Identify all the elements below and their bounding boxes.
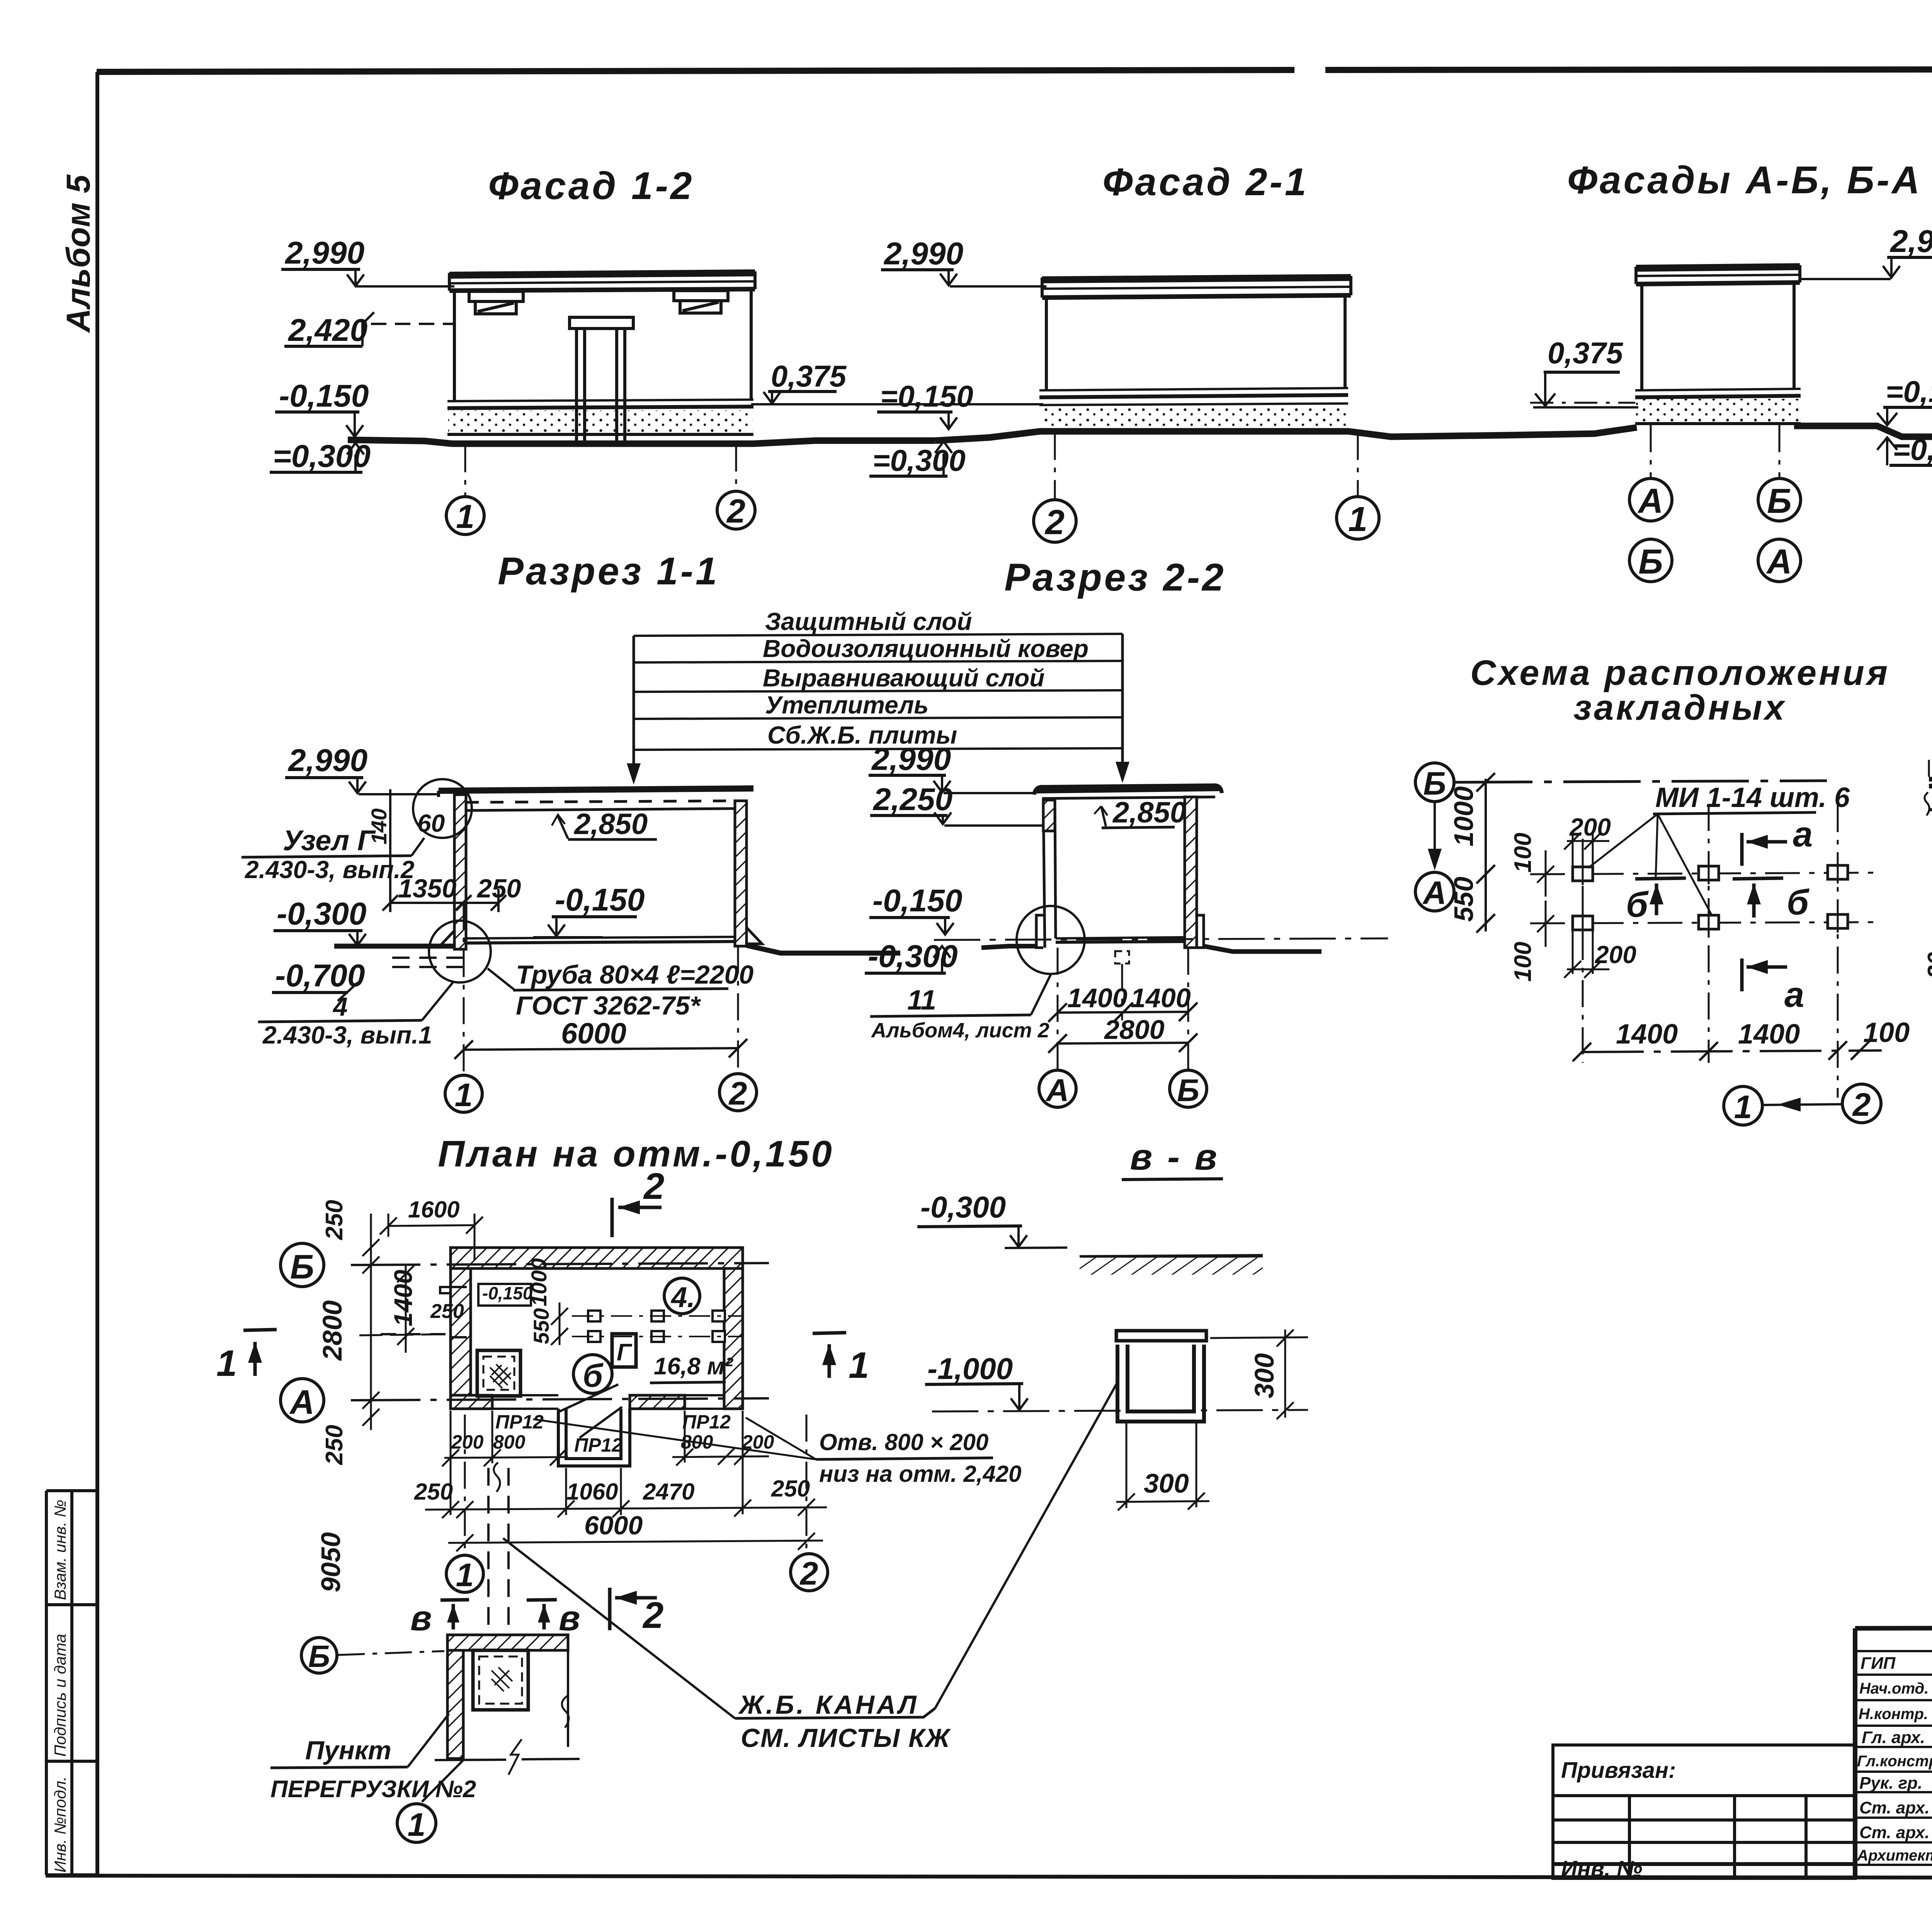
svg-text:Гл. арх.: Гл. арх. [1862, 1728, 1925, 1747]
facade A-B roof slab band [1636, 265, 1800, 284]
svg-text:Защитный слой: Защитный слой [765, 608, 972, 635]
scheme section mark b left [1635, 878, 1686, 915]
subplan left wall [447, 1650, 463, 1759]
svg-text:2,850: 2,850 [1112, 796, 1186, 829]
subplan break squiggle right [562, 1696, 569, 1728]
svg-text:1400: 1400 [1738, 1019, 1800, 1050]
svg-text:в - в: в - в [1130, 1136, 1219, 1178]
svg-text:2: 2 [1852, 1086, 1871, 1123]
roof layers arrows [627, 763, 641, 785]
svg-text:План на отм.-0,150: План на отм.-0,150 [438, 1133, 834, 1175]
section 1-1 wall base flares [440, 928, 762, 945]
svg-text:550: 550 [529, 1308, 553, 1344]
section 2-2 level 2,990 [869, 742, 1034, 793]
kanal leader to v-v channel [935, 1384, 1117, 1708]
svg-text:Б: Б [308, 1639, 330, 1674]
svg-text:Утеплитель: Утеплитель [765, 691, 929, 719]
facade 1-2 level 0,375 right [751, 359, 1043, 404]
svg-text:2: 2 [726, 493, 745, 530]
scheme column dash lines [1583, 804, 1838, 1098]
scheme axis A circle [1415, 872, 1454, 911]
plan embed dash lines [572, 1316, 742, 1336]
section 2-2 left wall [1043, 798, 1056, 948]
svg-text:1: 1 [408, 1806, 426, 1843]
scheme section mark b right [1733, 878, 1783, 918]
svg-text:Ж.Б. КАНАЛ: Ж.Б. КАНАЛ [738, 1690, 919, 1720]
section 1-1 dim 2,850 interior [552, 808, 657, 841]
svg-text:1000: 1000 [1449, 786, 1479, 846]
svg-text:-0,300: -0,300 [277, 896, 367, 931]
svg-text:Пункт: Пункт [305, 1736, 391, 1765]
scheme embed plates row 2 [1573, 914, 1848, 930]
svg-text:ГОСТ 3262-75*: ГОСТ 3262-75* [516, 991, 701, 1020]
plan section mark 1 right [813, 1333, 846, 1378]
section 1-1 roof slab [439, 788, 753, 810]
svg-text:Ст. арх.: Ст. арх. [1859, 1823, 1930, 1842]
svg-text:Схема расположения: Схема расположения [1470, 653, 1890, 693]
scheme axis B circle [1415, 763, 1454, 802]
subplan axis B circle [301, 1638, 337, 1673]
plan PR12 leader [580, 1407, 622, 1438]
svg-text:Б: Б [1767, 482, 1792, 521]
section 2-2 dim 2,850 interior [1094, 796, 1186, 829]
scheme plate center ticks [1583, 861, 1838, 934]
svg-text:А: А [1638, 482, 1663, 521]
svg-text:2470: 2470 [643, 1479, 694, 1505]
svg-text:СМ. ЛИСТЫ КЖ: СМ. ЛИСТЫ КЖ [741, 1723, 951, 1753]
svg-text:=0,300: =0,300 [872, 443, 966, 477]
section 1-1 detail 4 label [258, 982, 453, 1049]
svg-text:300: 300 [1144, 1468, 1189, 1498]
svg-text:-0,150: -0,150 [482, 1283, 533, 1303]
svg-text:250: 250 [321, 1200, 348, 1240]
sheet left border [95, 72, 99, 1875]
section 2-2 ground level dash line [934, 938, 1388, 940]
scheme section mark a upper [1742, 833, 1787, 866]
section 1-1 level -0,300 [274, 896, 367, 945]
svg-text:20: 20 [1923, 952, 1932, 979]
facade A-B walls [1642, 283, 1794, 390]
facade 2-1 level 2,990 [881, 236, 1046, 286]
facade 1-2 level -0,300 [270, 439, 371, 474]
svg-text:МИ 1-14 шт. 6: МИ 1-14 шт. 6 [1655, 782, 1850, 813]
section 1-1 ground right [747, 945, 900, 953]
facade 2-1 level 0,300 [869, 441, 966, 477]
a-a slab top lines [1929, 777, 1932, 786]
svg-text:ГИП: ГИП [1861, 1654, 1896, 1673]
plan b circle [573, 1355, 612, 1393]
subplan bottom dim line [435, 1739, 580, 1775]
svg-text:250: 250 [771, 1476, 810, 1502]
svg-text:250: 250 [414, 1479, 453, 1505]
scheme dim 200 lower [1564, 931, 1636, 978]
roof layers callout shelves [634, 634, 1122, 781]
subplan axis 1 circle [397, 1804, 436, 1842]
svg-text:-0,300: -0,300 [868, 939, 958, 974]
section 2-2 pipe below floor [1115, 951, 1129, 964]
section 2-2 level -0,300 [865, 939, 958, 974]
facade 2-1 roof slab band [1042, 276, 1351, 298]
plan section mark 2 bottom [610, 1588, 657, 1630]
svg-text:200: 200 [1595, 941, 1636, 969]
svg-text:Нач.отд.: Нач.отд. [1859, 1680, 1929, 1697]
kanal leader from plan channel [503, 1538, 735, 1718]
subplan v section marks [440, 1600, 557, 1629]
svg-text:а: а [1784, 975, 1804, 1015]
plan dim 1400 rotated [389, 1265, 417, 1353]
svg-text:2.430-3, вып.2: 2.430-3, вып.2 [245, 856, 414, 884]
subplan axis leader to circle 1 [422, 1760, 463, 1802]
section 2-2 floor line [1056, 937, 1185, 942]
kanal underline [735, 1708, 935, 1718]
svg-text:Инв. №подл.: Инв. №подл. [51, 1776, 69, 1873]
svg-text:-0,150: -0,150 [279, 378, 369, 414]
facade A-B level 0,300 [1877, 432, 1932, 466]
title block left edge [1853, 1628, 1857, 1878]
svg-text:Разрез 2-2: Разрез 2-2 [1004, 556, 1226, 599]
section 1-1 axis 1 circle [445, 1075, 482, 1112]
svg-text:0,375: 0,375 [771, 359, 847, 393]
section 2-2 detail 11 label [870, 974, 1051, 1042]
svg-text:ПР12: ПР12 [682, 1411, 731, 1433]
facade 2-1 axis 2 circle [1034, 433, 1076, 542]
scheme embed plates row 1 [1573, 865, 1848, 881]
facade 1-2 walls [454, 289, 751, 401]
facade 1-2 axis 1 circle [446, 445, 484, 535]
svg-text:200: 200 [1569, 813, 1611, 841]
svg-text:9050: 9050 [316, 1532, 346, 1592]
svg-text:100: 100 [1510, 833, 1536, 873]
plan opening dim lines [442, 1411, 769, 1466]
svg-text:250: 250 [321, 1425, 348, 1465]
section 1-1 detail circle pipe [429, 921, 491, 982]
facade 1-2 level -0,150 [275, 378, 369, 437]
svg-text:4: 4 [332, 992, 348, 1021]
svg-text:6000: 6000 [561, 1017, 626, 1050]
plan b leader [560, 1384, 618, 1411]
plan embed plates [588, 1311, 725, 1342]
section 2-2 ledge at 2,250 [1043, 830, 1056, 833]
scheme axis B line [1455, 781, 1827, 782]
plan room circle 4 [664, 1278, 700, 1314]
svg-text:Гл.констр.: Гл.констр. [1857, 1753, 1932, 1770]
facade A-B ground right [1794, 426, 1932, 437]
svg-text:1350: 1350 [398, 874, 456, 903]
svg-text:2,250: 2,250 [872, 782, 952, 817]
svg-text:1: 1 [849, 1345, 869, 1386]
facade 1-2 left vent [469, 291, 523, 314]
svg-text:-0,300: -0,300 [920, 1190, 1006, 1224]
svg-text:300: 300 [1249, 1353, 1279, 1398]
svg-text:Выравнивающий слой: Выравнивающий слой [763, 664, 1044, 692]
svg-text:2800: 2800 [1104, 1015, 1165, 1045]
plan channel dashed lines down [488, 1462, 509, 1634]
scheme axis circles 1-2 [1724, 1084, 1881, 1125]
section 1-1 pipe label [488, 960, 753, 1020]
plan inner dim ticks [551, 1302, 568, 1345]
svg-text:Б: Б [1177, 1073, 1199, 1108]
svg-text:Б: Б [1423, 765, 1446, 802]
facade 1-2 door pillar [570, 317, 633, 441]
svg-text:2: 2 [1044, 503, 1065, 542]
facade 2-1 ground line [935, 427, 1637, 441]
svg-text:-0,150: -0,150 [555, 882, 645, 918]
svg-text:Взам. инв. №: Взам. инв. № [51, 1500, 69, 1600]
svg-text:б: б [1787, 883, 1810, 922]
section 2-2 detail circle [1017, 906, 1085, 974]
facade A-B level 0,375 [1530, 336, 1638, 407]
svg-text:1: 1 [1734, 1089, 1752, 1125]
facade A-B axis B over A circles right [1758, 425, 1801, 582]
svg-text:1: 1 [455, 1077, 473, 1113]
b-b dim 20 left rotated [1923, 952, 1932, 1020]
svg-text:2: 2 [642, 1595, 663, 1636]
privyazan table [1553, 1745, 1855, 1878]
svg-text:100: 100 [1510, 942, 1536, 982]
svg-text:2.430-3, вып.1: 2.430-3, вып.1 [262, 1021, 432, 1049]
plan axis A line [351, 1398, 769, 1400]
v-v dim 300 right rotated [1210, 1330, 1308, 1419]
scheme section mark a lower [1742, 958, 1787, 991]
svg-text:Труба 80×4 ℓ=2200: Труба 80×4 ℓ=2200 [516, 960, 753, 989]
plan axis B line [351, 1263, 769, 1265]
svg-text:=0,300: =0,300 [1893, 432, 1932, 466]
svg-text:Водоизоляционный ковер: Водоизоляционный ковер [763, 635, 1088, 662]
svg-text:Привязан:: Привязан: [1561, 1758, 1676, 1783]
v-v level -0,300 [917, 1190, 1067, 1248]
plan section mark 2 top [612, 1198, 662, 1237]
section 1-1 ground left [334, 944, 454, 949]
plan G mark [612, 1334, 636, 1367]
svg-text:0,375: 0,375 [1548, 336, 1624, 370]
svg-text:-0,150: -0,150 [872, 883, 963, 918]
svg-text:11: 11 [907, 985, 936, 1016]
subplan top wall [447, 1635, 568, 1650]
section 2-2 axis B circle [1170, 1070, 1207, 1107]
section 1-1 dim 1350 250 [383, 789, 521, 912]
svg-text:ПЕРЕГРУЗКИ №2: ПЕРЕГРУЗКИ №2 [270, 1776, 476, 1803]
plan axis B circle [281, 1243, 324, 1287]
svg-text:Альбом4, лист 2: Альбом4, лист 2 [871, 1019, 1049, 1042]
svg-text:Узел Г: Узел Г [283, 824, 376, 856]
scheme dim 200 upper [1564, 813, 1611, 866]
svg-text:2,990: 2,990 [284, 235, 364, 271]
section 1-1 axis 2 circle [719, 1074, 757, 1111]
subplan right edge line [567, 1650, 569, 1747]
svg-text:А: А [1422, 875, 1447, 911]
svg-text:Инв. №: Инв. № [1561, 1856, 1642, 1881]
plan channel protrusion [558, 1409, 630, 1466]
svg-text:А: А [1766, 543, 1792, 581]
facade 1-2 roof slab band [449, 271, 755, 291]
section 1-1 dim 6000 [454, 1017, 747, 1059]
v-v ground hatch [1080, 1256, 1263, 1275]
svg-text:А: А [1045, 1073, 1069, 1108]
facade 2-1 plinth band [1039, 388, 1348, 431]
scheme small dim ticks at rows [1537, 850, 1554, 947]
svg-text:1400: 1400 [389, 1270, 417, 1326]
section 1-1 pipe below floor [392, 958, 466, 967]
svg-text:1400: 1400 [1067, 983, 1128, 1013]
svg-text:ПР12: ПР12 [495, 1411, 544, 1433]
facade 1-2 axis 2 circle [717, 444, 755, 530]
svg-text:Н.контр.: Н.контр. [1859, 1706, 1928, 1723]
facade A-B level 2,990 [1801, 224, 1932, 279]
scheme MI label [1588, 782, 1850, 915]
svg-text:Подпись и дата: Подпись и дата [51, 1634, 69, 1757]
svg-text:закладных: закладных [1573, 688, 1787, 727]
svg-text:Г: Г [617, 1339, 633, 1366]
section 2-2 roof slab [1034, 785, 1222, 798]
a-a break marks [1925, 751, 1932, 815]
svg-text:16,8 м²: 16,8 м² [654, 1353, 733, 1380]
facade 2-1 axis 1 circle [1337, 433, 1379, 539]
plan shaft square [477, 1350, 520, 1396]
plan axis leaders to circles [465, 1415, 806, 1554]
section 1-1 level -0,700 [272, 958, 365, 1001]
svg-text:2,850: 2,850 [573, 808, 648, 841]
svg-text:550: 550 [1449, 877, 1479, 922]
section 1-1 axis leaders [464, 903, 738, 1074]
section 2-2 axis A circle [1039, 1070, 1076, 1107]
svg-text:б: б [1626, 885, 1649, 924]
subplan axis B dash line [338, 1651, 444, 1655]
plan dashed axis through door [359, 1334, 451, 1335]
svg-text:250: 250 [430, 1300, 464, 1323]
facade 2-1 level 0,150 [877, 379, 973, 429]
plan -0,150 boxed label [478, 1284, 531, 1306]
svg-text:Архитект.: Архитект. [1857, 1847, 1932, 1864]
svg-text:А: А [289, 1383, 315, 1421]
section 2-2 ground thick segments [981, 946, 1321, 952]
svg-text:-1,000: -1,000 [927, 1352, 1013, 1386]
plan walls hatched [451, 1248, 743, 1409]
plan door opening left wall [381, 1287, 467, 1337]
facade 2-1 walls [1046, 295, 1345, 390]
svg-text:2: 2 [728, 1075, 747, 1112]
svg-text:1400: 1400 [1131, 983, 1191, 1013]
svg-text:Фасады А-Б, Б-А: Фасады А-Б, Б-А [1567, 158, 1922, 202]
svg-text:2,990: 2,990 [871, 742, 951, 777]
left margin stamp table [45, 1491, 48, 1875]
section 2-2 dims 1400 1400 [1048, 983, 1197, 1022]
svg-text:Фасад 1-2: Фасад 1-2 [488, 164, 694, 208]
sheet bottom border [46, 1876, 1932, 1878]
scheme row lines [1530, 873, 1874, 923]
plan dims 250 1060 2470 250 [414, 1411, 827, 1518]
a-a bottom chord [1929, 807, 1932, 826]
svg-text:2: 2 [643, 1166, 664, 1207]
svg-text:1: 1 [1348, 500, 1367, 539]
svg-text:б: б [583, 1357, 604, 1394]
v-v level -1,000 [925, 1352, 1308, 1411]
svg-text:2800: 2800 [317, 1300, 347, 1361]
facade A-B plinth band [1635, 389, 1801, 424]
svg-text:1: 1 [216, 1343, 237, 1384]
svg-text:Рук. гр.: Рук. гр. [1859, 1774, 1922, 1793]
plan axis 1 circle [446, 1555, 483, 1592]
facade 1-2 ground line [348, 440, 935, 444]
scheme vertical dim line left [1476, 773, 1495, 933]
section 2-2 level 2,250 [870, 782, 1043, 826]
svg-text:2,990: 2,990 [883, 236, 963, 271]
signature table horizontals [1855, 1651, 1932, 1865]
scheme bottom dims 1400 1400 100 [1573, 1017, 1910, 1061]
svg-text:Отв. 800 × 200: Отв. 800 × 200 [819, 1429, 988, 1455]
scheme B to A arrow [1434, 802, 1436, 866]
plan wall openings thin lines [492, 1395, 724, 1409]
section 2-2 wall base flares [1036, 915, 1204, 948]
plan dim 6000 [448, 1511, 823, 1551]
title block outer top line [1855, 1627, 1932, 1628]
subplan shaft square [473, 1650, 528, 1710]
facade 1-2 plinth band [447, 400, 753, 434]
svg-text:Б: Б [290, 1248, 314, 1286]
facade 1-2 right vent [674, 291, 728, 313]
plan axis 2 circle [791, 1554, 828, 1591]
facade A-B level 0,150 [1877, 375, 1932, 425]
svg-text:в: в [410, 1599, 432, 1638]
section 1-1 uzel G label [241, 824, 424, 884]
svg-text:200: 200 [451, 1431, 484, 1453]
svg-text:1: 1 [456, 1557, 474, 1593]
svg-text:а: а [1793, 815, 1813, 854]
svg-text:Альбом 5: Альбом 5 [60, 174, 97, 333]
svg-text:100: 100 [1863, 1017, 1910, 1048]
svg-text:1000: 1000 [527, 1258, 551, 1306]
svg-text:=0,150: =0,150 [1886, 375, 1932, 409]
svg-text:6000: 6000 [584, 1511, 643, 1540]
section 2-2 dim 2800 [1048, 1015, 1197, 1053]
svg-text:2: 2 [799, 1555, 818, 1592]
section 1-1 level 2,990 [285, 743, 439, 794]
svg-text:Б: Б [1638, 543, 1663, 581]
svg-text:1600: 1600 [408, 1197, 459, 1222]
svg-text:60: 60 [417, 809, 445, 837]
v-v channel lid [1116, 1331, 1206, 1341]
plan axis A circle [281, 1379, 324, 1422]
svg-text:2,990: 2,990 [1889, 224, 1932, 259]
svg-text:в: в [559, 1599, 580, 1638]
svg-text:Ст. арх.: Ст. арх. [1859, 1798, 1930, 1817]
svg-text:низ на отм. 2,420: низ на отм. 2,420 [819, 1461, 1022, 1487]
v-v dim 300 bottom [1116, 1423, 1209, 1510]
section 1-1 walls hatched [454, 795, 747, 949]
svg-text:1400: 1400 [1616, 1019, 1678, 1050]
section 2-2 right wall hatched [1185, 797, 1197, 948]
plan vertical dim line left [362, 1214, 379, 1430]
plan section mark 1 left [243, 1330, 277, 1376]
svg-text:800: 800 [493, 1431, 526, 1453]
svg-text:2,990: 2,990 [287, 743, 367, 778]
v-v channel U walls [1117, 1345, 1204, 1422]
svg-text:4.: 4. [670, 1281, 695, 1313]
svg-text:2,420: 2,420 [287, 313, 367, 348]
section 1-1 level -0,150 [533, 882, 645, 937]
sheet top border [97, 70, 1294, 72]
plan dim 1600 [380, 1197, 483, 1260]
section 1-1 floor line [466, 937, 735, 943]
section 2-2 axis leaders [1058, 948, 1188, 1069]
facade 1-2 level 2,420 [284, 312, 454, 348]
facade 1-2 level 2,990 [281, 235, 454, 286]
svg-text:=0,150: =0,150 [880, 379, 973, 413]
section 1-1 detail circle uzel G [413, 779, 472, 838]
signature table role labels [1857, 1654, 1932, 1864]
svg-text:Фасад 2-1: Фасад 2-1 [1102, 160, 1308, 204]
svg-text:1: 1 [456, 498, 474, 535]
plan hole note [533, 1418, 1022, 1487]
